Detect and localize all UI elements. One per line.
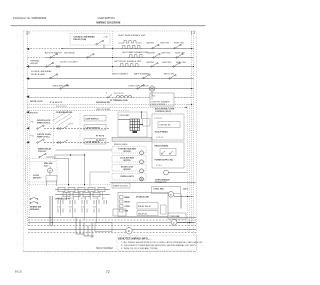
box small: [46, 176, 57, 182]
wire row B: [55, 194, 110, 196]
lamp DS2: [140, 177, 144, 181]
svg-text:SWITCH N.O.: SWITCH N.O.: [37, 122, 51, 124]
node L2 bus (right vertical dashed 2): [193, 31, 195, 235]
wire M7 to bus: [174, 196, 193, 198]
svg-text:LEFT FRONT SURFACE UNIT: LEFT FRONT SURFACE UNIT: [114, 60, 142, 63]
switch SW8 row2: [153, 54, 160, 59]
svg-text:8/15: 8/15: [15, 269, 22, 273]
terminal ticks top-right: [192, 32, 194, 35]
svg-text:TOUCH PANEL: TOUCH PANEL: [155, 131, 169, 134]
motor M2: [140, 160, 144, 164]
svg-text:1 2 3 4 5: 1 2 3 4 5: [156, 137, 163, 139]
vertical feed: [141, 112, 143, 119]
box conv fan: [112, 147, 146, 154]
switch cluster bottom-left: [30, 198, 38, 204]
tick pin labels row1: [57, 198, 105, 200]
svg-text:POWER SUPPLY BD.: POWER SUPPLY BD.: [155, 160, 174, 162]
wire row 6: [28, 97, 194, 99]
svg-text:DENOTES WIRING INFO.....: DENOTES WIRING INFO.....: [118, 237, 152, 241]
svg-text:COIL K1: COIL K1: [38, 151, 47, 153]
box oven sensor label: [152, 187, 181, 194]
svg-text:CGEF308TPFx: CGEF308TPFx: [98, 16, 116, 20]
svg-text:DISPLAY BD.: DISPLAY BD.: [160, 124, 172, 127]
switch pair mid1: [57, 126, 68, 130]
terminal ticks top-left: [27, 32, 29, 36]
dashed enclosure lock assy: [26, 159, 58, 183]
svg-text:P9 P5 P3: P9 P5 P3: [96, 140, 104, 142]
box lock motor: [112, 165, 146, 172]
svg-text:DOUBLE LINE: DOUBLE LINE: [136, 197, 150, 199]
inner pin squares: [120, 196, 124, 213]
switch SW12 row4: [143, 74, 150, 79]
box EOC upper: [152, 114, 184, 140]
svg-text:MOTOR: MOTOR: [33, 178, 41, 180]
svg-text:SPARK MODULE: SPARK MODULE: [113, 185, 129, 188]
node N bus (right vertical dashed 1): [191, 31, 193, 226]
switch SW7 row1: [174, 44, 181, 49]
svg-text:1 2 3: 1 2 3: [93, 198, 97, 200]
svg-text:1 2 3: 1 2 3: [81, 198, 85, 200]
svg-text:DOUBLE LINE BREAK: DOUBLE LINE BREAK: [31, 70, 52, 73]
svg-text:FAN: FAN: [125, 210, 129, 213]
terminal arrows on left bus: [26, 48, 29, 144]
svg-text:M: M: [170, 194, 172, 196]
left aux bus b: [29, 113, 31, 226]
inner box transformer: [137, 203, 158, 210]
dotted wire: [30, 161, 56, 163]
svg-text:LIMITER: LIMITER: [30, 63, 38, 65]
vertical dashed v1: [53, 113, 55, 146]
grid foot: [133, 131, 138, 133]
motor M7: [168, 192, 174, 198]
svg-text:P-1 P-2 P-3: P-1 P-2 P-3: [56, 106, 67, 108]
motor M4: [48, 168, 53, 173]
switch SW2 on row2: [50, 53, 58, 58]
junction dots: [70, 154, 71, 155]
svg-text:P10 P11: P10 P11: [30, 112, 38, 114]
svg-text:DOOR LOCK ASSY: DOOR LOCK ASSY: [60, 60, 78, 63]
svg-text:P6 COIL P5: P6 COIL P5: [114, 93, 124, 95]
bus nest verticals: [76, 218, 94, 239]
switch SW4 on row4: [50, 74, 58, 79]
motor M1: [140, 151, 144, 155]
svg-text:120 V: 120 V: [183, 188, 189, 190]
element E1 (dual radiant): [118, 40, 142, 48]
connector boxes row A: [58, 187, 105, 191]
switch SW1 in box: [96, 40, 104, 45]
wire row A: [55, 189, 110, 191]
switch SW10 row3: [151, 63, 158, 68]
svg-text:MOTOR: MOTOR: [123, 160, 131, 162]
svg-text:LIMIT SWITCH: LIMIT SWITCH: [86, 118, 100, 120]
warning dashed box: [70, 34, 110, 46]
svg-text:LIMIT SW.: LIMIT SW.: [162, 62, 172, 64]
svg-text:MODULE: MODULE: [30, 209, 40, 211]
switch SW9 row2: [176, 54, 183, 59]
switch SW3 on row3: [46, 62, 60, 67]
svg-text:RELAY BOARD: RELAY BOARD: [155, 144, 169, 147]
vertical dashed v2: [79, 113, 81, 146]
connector box on bus: [113, 209, 126, 216]
lamp DS1: [149, 86, 154, 91]
relay contacts inside: [161, 151, 173, 154]
svg-text:4 5 6: 4 5 6: [81, 207, 85, 209]
svg-text:BROIL ELEMENT: BROIL ELEMENT: [112, 73, 129, 75]
box partial right: [90, 172, 110, 186]
diagram frame: [23, 31, 196, 252]
svg-text:RELAY BD.: RELAY BD.: [138, 212, 148, 215]
svg-text:1 2 3: 1 2 3: [69, 198, 73, 200]
svg-text:WIRING DIAGRAM: WIRING DIAGRAM: [96, 21, 121, 25]
svg-text:P8 THERMAL FUSE: P8 THERMAL FUSE: [110, 99, 128, 102]
element E2: [128, 55, 144, 58]
side box right of grid: [143, 119, 151, 127]
svg-text:BAKE: BAKE: [125, 196, 131, 199]
svg-text:CONTROL (EOC): CONTROL (EOC): [155, 111, 171, 113]
svg-text:RELAY BOARD: RELAY BOARD: [31, 73, 46, 76]
svg-text:2 - DISCONNECT POWER BEFORE SE: 2 - DISCONNECT POWER BEFORE SERVICING. S…: [121, 244, 197, 247]
connector boxes row B: [63, 192, 100, 196]
svg-text:BREAK RELAY: BREAK RELAY: [138, 205, 152, 208]
switch SW5 on row5: [60, 84, 68, 89]
box latch sw right2: [84, 139, 106, 145]
wire M8 to bus: [177, 222, 193, 224]
motor M9: [126, 228, 132, 234]
svg-text:CONV: CONV: [125, 206, 131, 208]
svg-text:LIMIT SW.: LIMIT SW.: [160, 42, 170, 44]
wire row 4: [28, 78, 194, 80]
inner box lower: [160, 149, 176, 156]
box latch sw right: [84, 125, 106, 131]
vertical pair: [49, 196, 51, 226]
node L1 bus (left vertical dashed): [27, 31, 29, 226]
svg-text:4 5 6: 4 5 6: [93, 207, 97, 209]
wire row 5: [28, 88, 194, 90]
wire row 1: [28, 48, 62, 50]
wire dotted B: [28, 107, 188, 109]
dotted wire low: [28, 184, 110, 186]
wire row 2: [28, 57, 46, 59]
svg-text:J4 P4: J4 P4: [68, 124, 73, 126]
motor M8: [171, 219, 177, 225]
svg-text:CONV. FAN: CONV. FAN: [154, 188, 165, 191]
relay K1: [37, 125, 110, 129]
inner box display: [158, 122, 180, 128]
svg-text:P11: P11: [152, 96, 155, 98]
svg-text:OVEN LIGHT SWITCH: OVEN LIGHT SWITCH: [128, 85, 149, 87]
svg-text:LIMITER: LIMITER: [147, 52, 155, 54]
svg-text:3 - WIRE COLOR CODES ARE TYPIC: 3 - WIRE COLOR CODES ARE TYPICAL: [121, 247, 159, 250]
svg-text:1 2 3 4: 1 2 3 4: [156, 165, 162, 167]
lamp drop wire: [151, 91, 153, 99]
svg-text:MOTOR: MOTOR: [123, 169, 131, 171]
svg-text:P1 J2 P2: P1 J2 P2: [155, 118, 162, 120]
connector strip long: [112, 137, 152, 141]
notes box: [117, 236, 197, 251]
svg-text:OVEN LIGHTS: OVEN LIGHTS: [120, 176, 134, 178]
sensor probe circle: [164, 170, 169, 175]
svg-text:THERMAL: THERMAL: [30, 60, 40, 63]
box 120v: [168, 213, 186, 219]
svg-text:LATCH SWITCH: LATCH SWITCH: [86, 126, 101, 129]
wire dotted C: [28, 110, 130, 112]
svg-text:BAKE ELEMENT: BAKE ELEMENT: [134, 72, 150, 75]
grid block: [130, 119, 140, 131]
svg-text:LEFT REAR SURFACE UNIT: LEFT REAR SURFACE UNIT: [122, 51, 149, 54]
switch SW11 row3: [173, 63, 180, 68]
wire probe: [168, 172, 187, 174]
header rule: [11, 25, 206, 27]
svg-text:8 7 6 5 4 3 2 1: 8 7 6 5 4 3 2 1: [50, 101, 62, 104]
left aux bus a: [25, 113, 27, 226]
box to row1 tie: [103, 45, 105, 49]
box EOC lower: [152, 142, 184, 168]
svg-text:LIMIT SW.: LIMIT SW.: [161, 52, 171, 54]
small boxes under divider: [112, 183, 130, 188]
big box left: [118, 193, 168, 217]
svg-text:DOOR LOCK: DOOR LOCK: [30, 101, 43, 103]
svg-text:M: M: [128, 231, 130, 233]
wires trunk verticals: [54, 150, 112, 186]
svg-text:Publication No. 5995599089: Publication No. 5995599089: [13, 16, 47, 20]
tick group 2: [58, 209, 99, 213]
element E3: [119, 64, 140, 67]
relay K2: [37, 139, 110, 143]
svg-text:RIBBON CABLE: RIBBON CABLE: [114, 143, 128, 146]
svg-text:1 2: 1 2: [103, 198, 105, 200]
svg-text:4: 4: [106, 93, 107, 95]
crossover diagonals: [52, 111, 72, 126]
vertical dashed feeder: [112, 31, 114, 72]
box cooling fan: [112, 156, 146, 163]
switch SW12b row4: [169, 75, 176, 80]
switch SW6 row1: [152, 44, 159, 49]
svg-text:M: M: [49, 171, 51, 173]
switch SW2b on row2: [87, 54, 94, 59]
svg-text:P13: P13: [31, 135, 34, 137]
svg-text:MOTOR: MOTOR: [123, 151, 131, 153]
svg-text:BROIL: BROIL: [125, 202, 131, 204]
box on bus right: [95, 223, 112, 232]
svg-text:P7 P1 P4: P7 P1 P4: [96, 134, 105, 137]
svg-text:1 2 3: 1 2 3: [57, 198, 61, 200]
svg-text:N.O.: N.O.: [44, 166, 49, 168]
svg-text:4 5 6: 4 5 6: [57, 207, 61, 209]
svg-text:SURF. SW.: SURF. SW.: [175, 52, 185, 54]
svg-text:RIGHT REAR SURFACE UNIT: RIGHT REAR SURFACE UNIT: [118, 34, 146, 37]
svg-text:COOL FAN: COOL FAN: [170, 215, 180, 218]
wire dotted A: [28, 104, 194, 106]
box surface control: [150, 93, 174, 106]
svg-text:LINE OF SIGHT: LINE OF SIGHT: [96, 109, 111, 111]
connector drops: [61, 192, 103, 223]
long divider: [110, 182, 196, 184]
frame bottom emphasize: [23, 251, 196, 253]
svg-text:1 - ALL WIRING SHOWN WITH DOOR: 1 - ALL WIRING SHOWN WITH DOOR CLOSED, L…: [121, 241, 203, 244]
inner box relay: [137, 211, 158, 216]
svg-text:DOUBLE LINE BREAK: DOUBLE LINE BREAK: [74, 36, 96, 39]
svg-text:M: M: [173, 222, 175, 224]
motor M3: [140, 169, 144, 173]
tall pin strip: [161, 205, 167, 214]
strip ticks: [113, 137, 151, 141]
svg-text:BROIL SW.: BROIL SW.: [164, 74, 175, 76]
membrane outer box: [118, 112, 147, 137]
svg-text:SWITCH N.C.: SWITCH N.C.: [37, 136, 51, 138]
switch SW13 row5: [137, 85, 144, 90]
box latch sw top: [84, 116, 106, 122]
svg-text:RELAY (DLB): RELAY (DLB): [74, 38, 87, 41]
svg-text:DLB RELAY: DLB RELAY: [64, 52, 76, 55]
svg-text:P12: P12: [31, 121, 34, 123]
relay K3: [39, 154, 56, 158]
wire row 3: [28, 66, 194, 68]
right aux bus b: [189, 104, 191, 232]
bus lines bottom: [28, 218, 196, 230]
wire to grid: [118, 119, 130, 121]
tick group 1: [58, 200, 107, 204]
svg-text:ANTI-TIP SWITCH: ANTI-TIP SWITCH: [45, 52, 62, 55]
svg-text:4 5 6: 4 5 6: [69, 207, 73, 209]
svg-text:SURF. SW.: SURF. SW.: [174, 42, 184, 44]
svg-text:UNIT CONTROL: UNIT CONTROL: [152, 104, 166, 106]
svg-text:LIMITER: LIMITER: [146, 62, 154, 64]
right aux bus a: [187, 104, 189, 232]
end switch row6: [107, 95, 112, 99]
svg-text:KEYBOARD: KEYBOARD: [120, 114, 131, 117]
svg-text:C NO: C NO: [104, 37, 109, 39]
svg-text:SC17-04012: SC17-04012: [96, 246, 113, 250]
svg-text:72: 72: [106, 270, 110, 274]
switch pair mid2: [57, 140, 68, 144]
tick pin labels row2: [57, 207, 97, 209]
grid stub: [140, 124, 144, 126]
svg-text:DLB RELAY BD.: DLB RELAY BD.: [96, 101, 111, 104]
fuse F1 on wire: [116, 96, 132, 98]
svg-text:LIMITER: LIMITER: [146, 42, 154, 44]
box oven light2: [112, 174, 146, 181]
drop from box: [180, 194, 182, 209]
